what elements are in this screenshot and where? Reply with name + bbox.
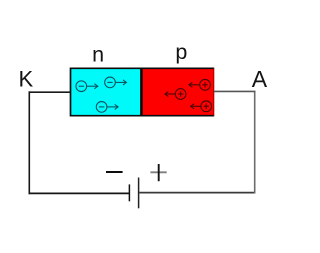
battery positive plate (long) [138, 178, 140, 209]
hole h1 (circled plus with left arrow) [189, 79, 210, 90]
wire: left vertical [28, 91, 30, 194]
n-p junction divider [140, 68, 143, 116]
wire: battery to bottom right [139, 192, 255, 194]
svg-text:A: A [252, 66, 268, 92]
battery plus sign [150, 164, 166, 181]
electron e2 (circled minus with right arrow) [105, 77, 127, 88]
wire: bottom left to battery [29, 192, 130, 194]
wire: K lead horizontal [29, 91, 71, 93]
electron e1 (circled minus with right arrow) [76, 81, 98, 92]
svg-text:n: n [92, 43, 104, 67]
wire: A lead horizontal [214, 90, 256, 92]
svg-text:p: p [175, 40, 187, 64]
battery minus sign [106, 171, 123, 173]
hole h3 (circled plus with left arrow) [191, 101, 212, 112]
diode body border [71, 68, 215, 115]
p region right edge [213, 69, 215, 116]
battery negative plate (short) [128, 184, 130, 201]
wire: right vertical [254, 91, 256, 193]
p region (red block of diode) [143, 69, 214, 116]
electron e3 (circled minus with right arrow) [96, 102, 118, 113]
hole h2 (circled plus with left arrow) [165, 89, 186, 100]
svg-text:K: K [18, 67, 33, 92]
n region (cyan block of diode) [71, 69, 141, 116]
